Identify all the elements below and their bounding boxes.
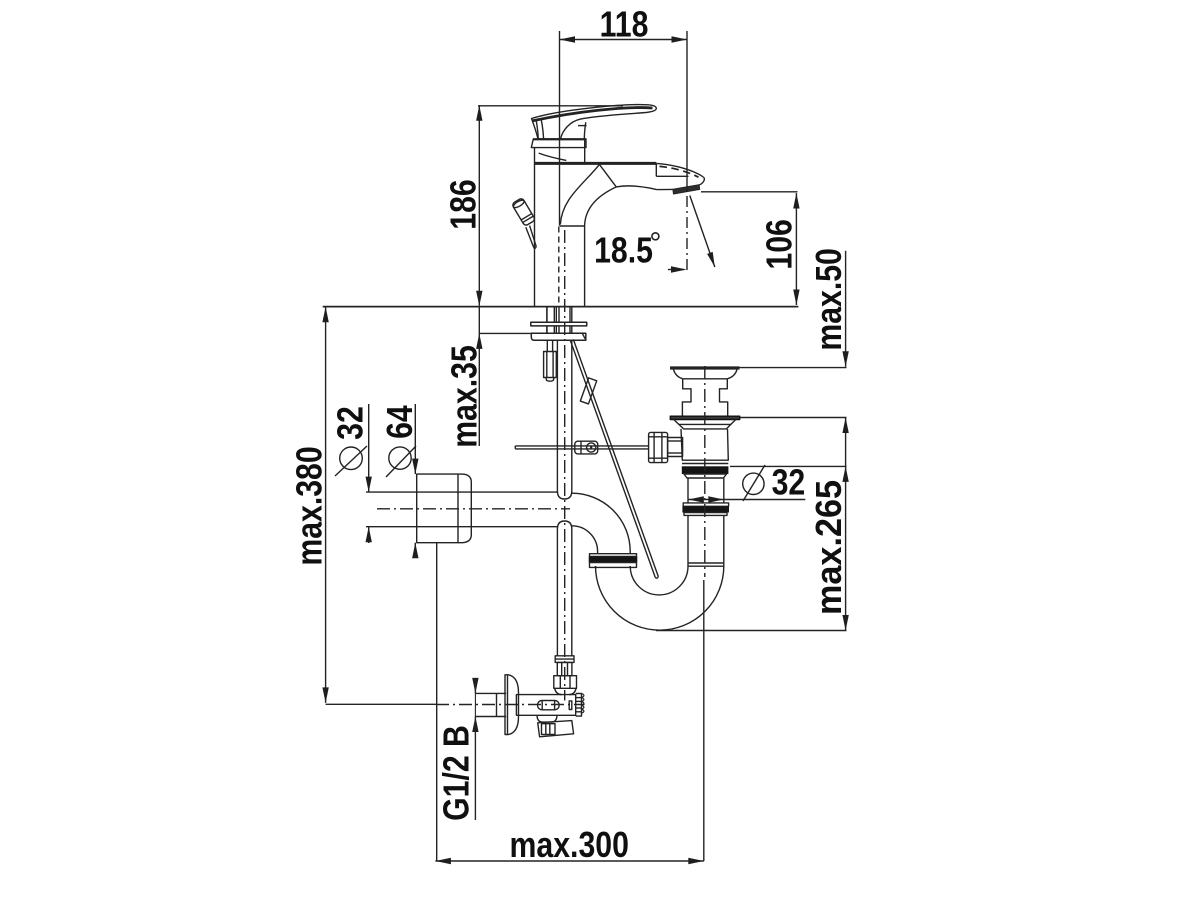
mounting hole tube bottom line [366,526,558,528]
dim dia64 line [414,404,416,474]
svg-text:max.35: max.35 [445,345,485,448]
faucet body right edge upper [584,139,586,163]
faucet cap under handle [531,139,586,148]
dim 106 ext top [701,191,798,193]
trap coupling black band [589,557,638,563]
trap coupling lip top [590,554,637,557]
dim 118 line [560,39,688,41]
dia64 symbol [389,447,411,469]
svg-text:18.5: 18.5 [594,231,653,271]
water stream dash-dot [686,196,688,272]
mounting nut [544,352,557,378]
knob taper rod [526,227,534,247]
valve wall pipe [475,692,506,694]
spout nose joint vertical [655,163,657,176]
valve big nut [554,676,577,689]
handle left tip contour lines [536,121,538,140]
spout top thick line [534,162,656,165]
pop-up horizontal rod [515,445,648,447]
dim max265 ext bottom [656,630,847,632]
dim max50 ext bottom [740,417,847,419]
mounting hole tube top line [366,491,558,493]
spout underside right [616,186,656,190]
svg-text:32: 32 [331,406,371,440]
spout underside to aerator [656,188,673,190]
trap elbow inner arc [572,526,598,554]
spigot inner detail [542,724,556,735]
dim dia32 left line [368,404,370,492]
spout outer under-arc [560,164,599,224]
drain neck line [683,378,728,380]
faucet body right edge lower [584,226,586,307]
dim G12 arrows [472,678,478,694]
faucet centerline dash-dot [564,230,566,701]
mounting stud rod [546,340,548,351]
valve serrated cap [576,694,582,717]
faucet body left edge [534,148,536,307]
handle neck inner line [584,122,586,139]
drain nut cylinder [668,438,683,457]
dim 106 line [795,193,797,305]
svg-text:max.50: max.50 [810,248,850,351]
svg-text:118: 118 [600,5,649,45]
trap U-bend inner arc [630,566,688,595]
spout nose inner horizontal [656,175,688,177]
stream horizontal arrow [668,269,684,271]
dim max50 line upper [845,251,847,367]
dim G12 line down [474,717,476,821]
supply pipe lower segment top cap [557,521,571,529]
stream angle diagonal [690,196,715,268]
trap inlet pipe seam [688,562,724,564]
valve compression ring [555,656,574,663]
valve shoulder [555,688,562,694]
faucet lever handle [532,105,657,139]
mounting hole bulge right [458,474,471,543]
drain centerline dash-dot [704,366,706,577]
trap elbow outer arc [572,493,630,554]
shank lines below counter [546,307,548,323]
svg-text:G1/2 B: G1/2 B [437,725,477,821]
stream angle arrowhead [707,252,715,267]
spout base ledge [560,225,585,227]
valve collar boss [537,715,557,722]
svg-text:max.380: max.380 [290,446,330,565]
drain body upper [682,379,691,416]
drain black band [682,466,729,474]
rod clevis [575,441,598,454]
spout inner under-arc [585,187,617,226]
shank lines between plates [546,326,548,333]
dim max300 right ext [703,580,705,861]
svg-text:32: 32 [772,463,806,503]
fixing flange plate [531,333,586,340]
dim max50 max265 line [845,418,847,631]
dim 118 ext left [559,31,561,226]
mounting hole centerline dash-dot [377,508,570,510]
pop-up lift knob [512,198,536,227]
drain coupling lip top [683,503,728,506]
dim max300 line [435,860,703,862]
trap left pipe [595,566,597,567]
svg-text:64: 64 [380,405,420,439]
svg-text:106: 106 [760,219,800,269]
mounting hole section box [417,474,458,543]
svg-text:max.300: max.300 [510,826,629,866]
diagonal rod sleeve [580,378,596,404]
faucet body dome slant [539,153,567,160]
supply pipe bottom cap [557,491,571,499]
trap inlet pipe [687,515,689,566]
dim 186 ext top [478,105,623,107]
dim max380 line [325,307,327,703]
valve small nut [557,662,572,675]
drain coupling black band [682,506,729,512]
dim max35 ext [479,332,531,334]
flange notch diagonal [582,333,585,339]
drain gasket band 1 [674,420,736,425]
svg-text:186: 186 [444,179,484,229]
drain funnel right curve [727,370,737,379]
handle top edge double line [533,108,653,121]
dim max265 ext top [730,465,847,467]
drain coupling lip bottom [684,513,727,516]
spout joint diagonal [599,164,616,187]
valve wall flange [505,675,519,735]
faucet hidden dashed line [558,227,560,307]
dim 118 ext right [686,31,688,192]
countertop line [323,306,799,308]
upper washer plate [531,322,587,326]
degree circle for 18.5 [652,233,659,240]
drain funnel left curve [674,370,683,379]
trap coupling lip bottom [590,563,637,568]
dim dia32 right leader [688,499,805,501]
dim max50 ext top [740,367,847,369]
supply pipe lower segment [556,529,558,656]
drain band lip [684,474,727,478]
supply pipe upper segment [556,340,558,491]
nut bottom cap [546,378,554,382]
dim max35 line [478,307,480,446]
pop-up diagonal rod [570,340,655,577]
drain seal line [682,463,728,465]
valve screw slot [569,701,572,710]
vertical line from box to max300 [436,543,438,861]
trap U-bend outer arc [596,566,724,630]
drain tailpipe [687,478,689,503]
drain flange thick top [670,366,740,369]
spout nose inner dashed band [660,166,699,177]
spout nose top curve [656,163,704,185]
dia32 right symbol [743,473,764,494]
drain clamp washer [670,416,739,419]
valve body [516,695,575,716]
svg-text:max.265: max.265 [809,480,849,615]
drain tapered body [681,429,728,460]
dim 186 line [478,105,480,305]
dim max380 bottom line [326,703,436,705]
valve centerline dash-dot [436,704,585,706]
dia32 left symbol [340,447,363,470]
drain gasket band 2 [679,424,731,429]
clevis pivot [587,443,596,452]
valve cartridge pill [538,701,560,710]
aerator [673,185,700,194]
drain nut for rod [649,432,668,462]
valve outlet spigot [538,721,574,737]
